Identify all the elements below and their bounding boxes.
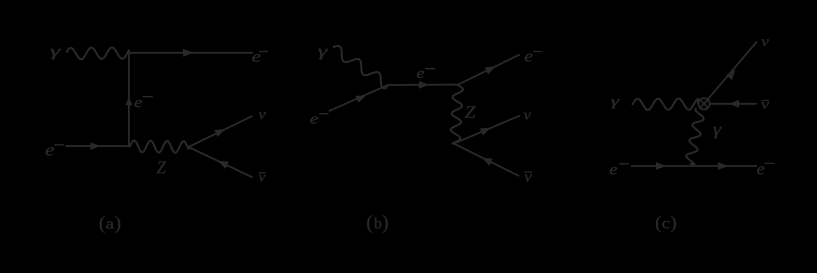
label e- bottom left (a) bbox=[46, 147, 54, 155]
antineutrino line nubar (b) bbox=[454, 144, 519, 176]
superscript minus of internal e- (b) bbox=[426, 68, 435, 70]
Z boson wavy line (b) bbox=[451, 85, 463, 144]
label e- incoming (c) bbox=[610, 167, 617, 174]
arrow on nubar line (a) bbox=[218, 161, 229, 169]
caption (a) bbox=[100, 216, 120, 233]
electron line bottom (c) bbox=[632, 165, 757, 167]
label nu (b) bbox=[524, 113, 531, 120]
label Z (b) bbox=[465, 106, 476, 118]
antineutrino line nubar (c) bbox=[710, 103, 756, 105]
outgoing electron line top (a) bbox=[129, 52, 252, 54]
arrow on incoming electron line (b) bbox=[355, 95, 366, 103]
label Z (a) bbox=[157, 162, 166, 174]
photon gamma label (a) bbox=[50, 49, 60, 59]
photon wavy line gamma (c) bbox=[632, 99, 698, 110]
label e- internal (b) bbox=[417, 71, 424, 78]
arrow on nu line (c) bbox=[726, 70, 736, 80]
arrow on outgoing electron line (b) bbox=[485, 66, 496, 74]
label e- incoming (b) bbox=[310, 117, 318, 124]
macron of nubar (b) bbox=[525, 171, 532, 173]
photon gamma label (b) bbox=[318, 49, 328, 60]
photon wavy line gamma (a) bbox=[66, 47, 129, 59]
caption (c) bbox=[656, 216, 676, 233]
superscript minus of internal e- (a) bbox=[143, 96, 152, 98]
label nu (a) bbox=[259, 112, 266, 119]
incoming electron line bottom (a) bbox=[66, 145, 129, 147]
effective vertex cross stroke 1 (c) bbox=[700, 100, 708, 108]
arrow up on internal electron propagator (a) bbox=[126, 97, 133, 106]
superscript minus of e- bottom left (a) bbox=[55, 144, 63, 146]
arrow on nu line (a) bbox=[214, 129, 225, 137]
photon gamma label (c) bbox=[611, 99, 620, 109]
superscript minus of incoming e- (c) bbox=[620, 163, 628, 165]
effective vertex circle (c) bbox=[698, 98, 709, 109]
effective vertex cross stroke 2 (c) bbox=[700, 100, 708, 108]
incoming electron line (b) bbox=[330, 85, 389, 111]
macron of nubar (a) bbox=[259, 172, 265, 174]
neutrino line nu (b) bbox=[454, 116, 520, 144]
internal photon label gamma (c) bbox=[713, 127, 721, 139]
outgoing electron line (b) bbox=[458, 55, 519, 85]
superscript minus of outgoing e- (b) bbox=[534, 51, 542, 53]
internal electron line (b) bbox=[388, 84, 458, 86]
arrow on incoming electron line (a) bbox=[90, 142, 100, 150]
label e- outgoing (c) bbox=[757, 166, 764, 174]
neutrino line nu (a) bbox=[189, 116, 253, 147]
Z boson wavy line (a) bbox=[129, 140, 188, 152]
arrow on internal electron line (b) bbox=[419, 81, 429, 89]
label e- outgoing (b) bbox=[525, 54, 533, 62]
arrow on outgoing electron segment (c) bbox=[718, 162, 728, 170]
label e- internal (a) bbox=[135, 100, 142, 107]
superscript minus of e- top right (a) bbox=[259, 51, 267, 53]
superscript minus of outgoing e- (c) bbox=[766, 162, 775, 164]
photon wavy line gamma (b) bbox=[333, 46, 388, 88]
caption (b) bbox=[367, 215, 387, 233]
label nubar (c) bbox=[761, 102, 769, 109]
label nu (c) bbox=[761, 39, 769, 46]
arrow on incoming electron segment (c) bbox=[656, 162, 666, 170]
macron of nubar (c) bbox=[762, 99, 769, 101]
superscript minus of incoming e- (b) bbox=[320, 113, 328, 115]
arrow on nubar line (b) bbox=[482, 158, 493, 166]
arrow on nubar line (c) bbox=[729, 100, 739, 108]
label nubar (b) bbox=[524, 174, 531, 181]
antineutrino line nubar (a) bbox=[189, 147, 253, 177]
neutrino line nu (c) bbox=[704, 42, 757, 104]
label nubar (a) bbox=[259, 175, 266, 181]
arrow on nu line (b) bbox=[480, 128, 491, 136]
internal photon wavy line (c) bbox=[686, 108, 703, 165]
arrow on top electron line (a) bbox=[183, 49, 194, 57]
label e- top right (a) bbox=[252, 54, 260, 62]
internal electron propagator vertical (a) bbox=[128, 53, 130, 146]
